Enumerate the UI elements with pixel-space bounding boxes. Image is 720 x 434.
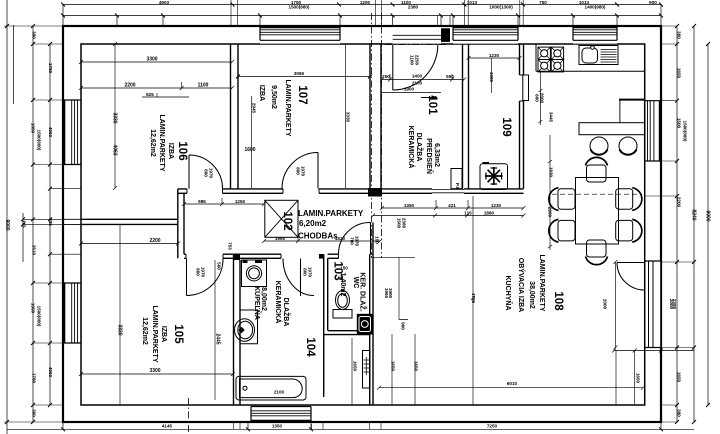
svg-text:900: 900 xyxy=(649,0,657,5)
svg-text:1650: 1650 xyxy=(414,361,419,372)
window top W3 kitchen xyxy=(573,27,617,44)
WC bottom wall xyxy=(324,331,370,335)
svg-text:IZBA: IZBA xyxy=(167,143,174,159)
svg-text:1650: 1650 xyxy=(677,68,682,79)
svg-text:LAMIN.PARKETY: LAMIN.PARKETY xyxy=(298,209,364,218)
svg-text:LAMIN.PARKETY: LAMIN.PARKETY xyxy=(538,254,545,311)
svg-text:2000: 2000 xyxy=(603,299,608,310)
room109 dims xyxy=(469,57,520,59)
door arcs xyxy=(187,45,645,296)
entry door opening in top wall xyxy=(393,27,441,43)
corridor bottom wall west w/ door105 opening xyxy=(184,254,240,258)
svg-text:IZBA: IZBA xyxy=(258,85,265,101)
svg-text:1650: 1650 xyxy=(391,361,396,372)
door 107 leaf+arc xyxy=(282,153,318,189)
svg-text:2600: 2600 xyxy=(540,93,545,104)
room101 dim line2 xyxy=(381,92,441,94)
dining table xyxy=(576,178,619,245)
left dim line A xyxy=(6,0,8,434)
WC left wall xyxy=(324,254,328,397)
window left WL2 room105 xyxy=(64,283,81,343)
svg-text:800: 800 xyxy=(204,169,209,177)
svg-text:1400(980): 1400(980) xyxy=(585,5,606,10)
svg-text:2945: 2945 xyxy=(252,103,257,114)
svg-text:1900: 1900 xyxy=(404,87,415,92)
wall joint marks left wall at 105/106 divider xyxy=(63,219,81,224)
WC small dim xyxy=(373,257,415,319)
svg-text:9,50m2: 9,50m2 xyxy=(270,85,277,109)
svg-text:1970: 1970 xyxy=(301,166,306,177)
section dash dot lines xyxy=(188,13,447,433)
top extension pairs over interior walls xyxy=(231,0,523,26)
wall 106|corridor vertical xyxy=(178,189,184,259)
svg-text:1350: 1350 xyxy=(272,423,283,428)
interior dimension lines xyxy=(79,42,694,405)
svg-text:300: 300 xyxy=(32,409,37,417)
svg-text:2380: 2380 xyxy=(402,218,407,229)
entry arrow xyxy=(421,95,438,99)
outer wall outline xyxy=(63,26,661,422)
svg-text:DLAŽBA: DLAŽBA xyxy=(415,133,424,162)
wall under room109 xyxy=(464,189,524,193)
svg-text:3330: 3330 xyxy=(346,112,351,123)
svg-text:500: 500 xyxy=(217,262,222,270)
svg-text:1500: 1500 xyxy=(677,118,682,129)
corridor top wall segment west xyxy=(178,189,187,193)
wall 101|109 xyxy=(463,44,469,189)
svg-text:2200: 2200 xyxy=(124,83,135,89)
kitchen dims xyxy=(539,71,541,125)
door 101 leaf open xyxy=(451,169,462,189)
svg-text:1970: 1970 xyxy=(308,267,313,278)
bottom extension pairs xyxy=(234,422,382,429)
svg-text:1350: 1350 xyxy=(31,123,36,134)
window top W2 room109/kitchen xyxy=(453,27,518,44)
window right WR1 kitchen xyxy=(645,101,660,161)
toilet xyxy=(333,310,352,319)
door WC leaf+arc xyxy=(339,222,371,254)
svg-text:1965: 1965 xyxy=(275,236,286,241)
svg-text:800: 800 xyxy=(296,167,301,175)
window bottom WB1 bathroom xyxy=(251,406,311,421)
svg-text:8240: 8240 xyxy=(691,209,697,220)
drainer lines xyxy=(601,50,617,63)
room labels xyxy=(141,79,564,362)
svg-text:4903: 4903 xyxy=(159,0,170,5)
svg-text:6010: 6010 xyxy=(507,381,518,386)
bathroom left wall xyxy=(234,254,241,405)
svg-text:380: 380 xyxy=(677,31,682,39)
room105 vertical dims xyxy=(119,224,121,405)
svg-text:12,62m2: 12,62m2 xyxy=(141,317,148,345)
svg-text:1013: 1013 xyxy=(467,0,478,5)
svg-text:421: 421 xyxy=(448,203,456,208)
svg-text:2200: 2200 xyxy=(548,207,553,218)
svg-text:1250: 1250 xyxy=(235,199,246,204)
black pier corridor/living xyxy=(368,188,382,197)
svg-text:KERAMICKÁ: KERAMICKÁ xyxy=(407,126,416,169)
svg-text:115: 115 xyxy=(22,220,27,228)
svg-text:700: 700 xyxy=(350,237,355,245)
svg-text:1970: 1970 xyxy=(209,168,214,179)
right dim line A xyxy=(676,26,678,422)
svg-text:750: 750 xyxy=(539,0,547,5)
svg-text:PREDSIEŇ: PREDSIEŇ xyxy=(425,138,434,174)
svg-text:1,40m2: 1,40m2 xyxy=(339,273,346,297)
bathtub xyxy=(236,376,306,400)
svg-text:985: 985 xyxy=(198,199,206,204)
svg-text:4796: 4796 xyxy=(471,293,476,304)
svg-text:38,00m2: 38,00m2 xyxy=(528,281,535,309)
balcony door right glazing xyxy=(645,261,660,348)
living west wall xyxy=(370,223,373,406)
sink unit xyxy=(579,46,618,65)
wall 106|105 divider xyxy=(81,219,178,224)
top dim line A xyxy=(63,4,661,6)
svg-text:115: 115 xyxy=(464,210,472,215)
svg-text:102: 102 xyxy=(281,211,293,230)
attic hatch X box corridor xyxy=(265,200,298,237)
balcony door leaf+arc xyxy=(617,263,645,291)
svg-text:4145: 4145 xyxy=(162,423,173,428)
svg-text:KER. DLAŽ.: KER. DLAŽ. xyxy=(359,272,368,311)
svg-text:735: 735 xyxy=(48,218,53,226)
svg-text:4063: 4063 xyxy=(112,144,118,155)
left dim line D xyxy=(49,44,51,405)
svg-text:1780: 1780 xyxy=(48,63,53,74)
svg-text:1000(1300): 1000(1300) xyxy=(489,5,513,10)
svg-text:1400: 1400 xyxy=(412,74,423,79)
kitchen counter front edge xyxy=(536,70,645,72)
svg-text:8,00m2: 8,00m2 xyxy=(260,287,267,311)
svg-text:2445: 2445 xyxy=(215,333,221,344)
svg-text:OBÝVACIA IZBA: OBÝVACIA IZBA xyxy=(517,258,526,312)
svg-text:550: 550 xyxy=(446,74,454,79)
svg-text:IZBA: IZBA xyxy=(160,326,167,342)
room106 vertical dim xyxy=(114,44,116,188)
freezer room109 xyxy=(480,164,508,190)
svg-text:250: 250 xyxy=(382,74,390,79)
door 105 leaf+arc xyxy=(187,259,224,296)
svg-text:2200: 2200 xyxy=(677,197,682,208)
window left WL1 room106 xyxy=(64,100,81,165)
right dim line B xyxy=(693,26,695,422)
svg-text:1600: 1600 xyxy=(244,147,255,153)
svg-text:2380: 2380 xyxy=(672,299,677,310)
fixtures xyxy=(235,44,645,400)
washing machine xyxy=(242,260,267,287)
wall 107|101 xyxy=(370,44,381,189)
right dim line C xyxy=(707,44,709,405)
svg-text:2250: 2250 xyxy=(415,55,420,66)
left dim line C xyxy=(32,26,34,422)
svg-text:1970: 1970 xyxy=(355,236,360,247)
chairs left xyxy=(558,189,575,210)
svg-text:800: 800 xyxy=(303,268,308,276)
svg-text:3330: 3330 xyxy=(112,112,118,123)
svg-text:1880: 1880 xyxy=(484,210,495,215)
svg-text:3065: 3065 xyxy=(294,71,305,76)
room107 dim line xyxy=(238,76,370,78)
svg-text:150: 150 xyxy=(375,236,380,244)
bar stool 2 xyxy=(619,137,637,155)
svg-text:1100: 1100 xyxy=(198,83,209,89)
room106 door dim 825 xyxy=(142,93,189,97)
corridor top wall east of door107 xyxy=(319,189,368,193)
svg-text:1650: 1650 xyxy=(636,373,641,384)
chair top xyxy=(587,165,607,182)
svg-text:2510: 2510 xyxy=(32,245,37,256)
room106 dim 3300 xyxy=(81,61,232,63)
svg-text:2380: 2380 xyxy=(408,5,419,10)
bottom ticks xyxy=(61,427,663,431)
room101 dim line xyxy=(382,79,464,81)
svg-text:1100: 1100 xyxy=(410,55,415,65)
dims under 101 xyxy=(382,207,524,209)
black pier bath top-left xyxy=(234,254,241,260)
svg-text:DLAŽBA: DLAŽBA xyxy=(282,298,291,327)
bottom dim line xyxy=(7,428,694,430)
svg-text:6,20m2: 6,20m2 xyxy=(299,219,327,228)
svg-text:101: 101 xyxy=(426,95,438,115)
top dim line B xyxy=(63,15,661,17)
corridor dim 1965/1520 xyxy=(264,240,380,242)
door101 threshold xyxy=(432,189,464,192)
corridor top wall between doors 106,107 xyxy=(223,189,284,193)
svg-text:105: 105 xyxy=(172,324,184,344)
top ticks xyxy=(61,3,663,7)
svg-text:108: 108 xyxy=(552,291,564,311)
duct black box xyxy=(357,314,373,335)
room106 dim 2200/1100 xyxy=(81,87,232,89)
svg-text:2100: 2100 xyxy=(274,390,285,395)
tall cabinet wall stub right xyxy=(619,99,645,101)
svg-text:1500(880): 1500(880) xyxy=(683,121,688,142)
svg-text:1500(880): 1500(880) xyxy=(37,306,42,327)
svg-text:1230: 1230 xyxy=(491,203,502,208)
chairs right xyxy=(616,189,633,210)
svg-text:1780: 1780 xyxy=(32,373,37,384)
interior dim labels xyxy=(112,53,641,395)
svg-text:800: 800 xyxy=(196,268,201,276)
svg-text:753: 753 xyxy=(228,242,233,250)
svg-text:2100: 2100 xyxy=(412,81,423,86)
door 106 leaf+arc xyxy=(189,155,223,189)
svg-text:3300: 3300 xyxy=(149,368,160,374)
window top W1 room107 xyxy=(260,27,340,44)
black pier at WC corner xyxy=(319,254,324,259)
bar stool 1 xyxy=(590,137,608,155)
svg-text:7250: 7250 xyxy=(487,423,498,428)
svg-text:106: 106 xyxy=(176,141,188,160)
svg-text:4063: 4063 xyxy=(48,367,53,378)
svg-text:1500(880): 1500(880) xyxy=(37,130,42,151)
svg-text:2200: 2200 xyxy=(149,238,160,244)
room105 bottom dim xyxy=(81,373,233,375)
svg-text:WC: WC xyxy=(352,277,359,289)
svg-text:1500: 1500 xyxy=(397,218,402,229)
peninsula counter xyxy=(579,123,645,135)
radiator niche xyxy=(363,351,371,389)
room105 top dim xyxy=(81,243,178,245)
svg-text:9000: 9000 xyxy=(705,210,711,221)
svg-text:CHODBAs: CHODBAs xyxy=(298,232,338,241)
black jamb right of entry door xyxy=(441,28,450,42)
wall under room101 xyxy=(382,189,432,193)
room107 vertical dim xyxy=(252,44,346,188)
freezer snowflake xyxy=(485,167,503,185)
svg-text:1230: 1230 xyxy=(489,53,500,58)
svg-text:107: 107 xyxy=(296,85,308,104)
svg-text:KERAMICKÁ: KERAMICKÁ xyxy=(274,281,283,324)
svg-text:1500(880): 1500(880) xyxy=(289,5,310,10)
kitchen counter left edge xyxy=(535,44,537,71)
washbasin vanity xyxy=(240,310,258,344)
svg-text:3300: 3300 xyxy=(146,57,157,63)
door 104 leaf+arc xyxy=(283,259,314,297)
svg-text:1830: 1830 xyxy=(549,167,554,178)
WC top wall w/ door opening xyxy=(328,254,339,258)
bath top wall to door104 xyxy=(240,254,281,258)
svg-text:1900: 1900 xyxy=(388,288,393,299)
svg-text:1650: 1650 xyxy=(677,372,682,383)
svg-text:3445: 3445 xyxy=(549,112,554,123)
living room dims xyxy=(472,196,474,405)
chair bottom xyxy=(587,240,607,257)
svg-text:1200: 1200 xyxy=(360,0,371,5)
right ticks xyxy=(675,24,679,424)
svg-text:104: 104 xyxy=(304,337,316,357)
svg-text:9000: 9000 xyxy=(4,219,10,230)
wall 106|107 xyxy=(231,44,239,189)
svg-text:1970: 1970 xyxy=(201,267,206,278)
svg-text:825: 825 xyxy=(146,92,154,97)
svg-text:900: 900 xyxy=(401,322,406,330)
svg-text:380: 380 xyxy=(677,409,682,417)
svg-text:600: 600 xyxy=(535,94,540,102)
svg-text:1350: 1350 xyxy=(31,303,36,314)
svg-text:LAMIN.PARKETY: LAMIN.PARKETY xyxy=(284,79,291,136)
left dim line B xyxy=(22,213,24,262)
svg-text:380: 380 xyxy=(32,31,37,39)
corridor dim 985/1250 xyxy=(184,203,264,205)
svg-text:P.k: P.k xyxy=(455,183,460,190)
svg-text:1650: 1650 xyxy=(353,361,358,372)
pantry door leaf xyxy=(523,75,529,101)
wall 109|kitchen with pantry door opening xyxy=(520,44,524,75)
svg-text:1305: 1305 xyxy=(489,72,494,83)
svg-text:LAMIN.PARKETY: LAMIN.PARKETY xyxy=(158,114,165,171)
svg-text:1350: 1350 xyxy=(404,203,415,208)
svg-text:3330: 3330 xyxy=(117,324,123,335)
svg-text:KUCHYŇA: KUCHYŇA xyxy=(504,276,513,311)
svg-text:LAMIN.PARKETY: LAMIN.PARKETY xyxy=(151,305,158,362)
svg-text:12,62m2: 12,62m2 xyxy=(149,129,156,157)
stove 4 burners xyxy=(538,47,550,59)
svg-text:6,33m2: 6,33m2 xyxy=(433,143,440,167)
entry door leaf+arc xyxy=(393,45,438,90)
svg-text:109: 109 xyxy=(500,117,512,136)
svg-text:4063: 4063 xyxy=(48,127,53,138)
